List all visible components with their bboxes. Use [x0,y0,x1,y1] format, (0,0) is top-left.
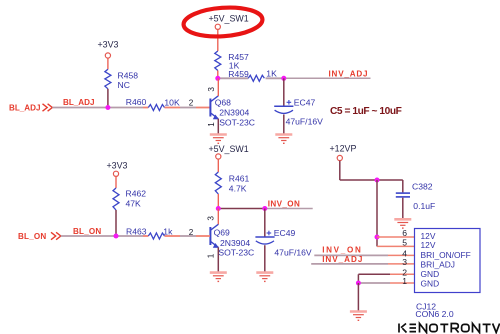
svg-text:BL_ADJ: BL_ADJ [9,104,40,113]
svg-text:Q68: Q68 [215,98,231,108]
svg-text:47K: 47K [126,199,142,209]
svg-text:EC49: EC49 [274,228,296,238]
svg-text:SOT-23C: SOT-23C [219,117,255,127]
svg-text:BRI_ADJ: BRI_ADJ [421,260,455,270]
svg-text:EC47: EC47 [294,98,316,108]
svg-text:2: 2 [189,228,194,237]
svg-text:BL_ON: BL_ON [18,232,46,241]
svg-text:+12VP: +12VP [330,143,357,153]
svg-text:BRI_ON/OFF: BRI_ON/OFF [421,250,471,260]
svg-text:3: 3 [207,216,216,221]
svg-text:INV_ADJ: INV_ADJ [322,255,363,264]
svg-text:1: 1 [207,253,216,258]
svg-text:+3V3: +3V3 [98,40,119,50]
svg-text:R458: R458 [118,71,139,81]
svg-text:Q69: Q69 [214,228,230,238]
svg-text:47uF/16V: 47uF/16V [286,116,324,126]
svg-text:12V: 12V [421,240,436,250]
svg-text:6: 6 [402,228,407,238]
svg-text:10K: 10K [164,97,180,107]
svg-text:INV_ADJ: INV_ADJ [329,69,369,78]
svg-text:1k: 1k [163,227,173,237]
svg-text:R460: R460 [126,97,147,107]
svg-text:47uF/16V: 47uF/16V [274,248,312,258]
svg-text:BL_ADJ: BL_ADJ [63,98,94,107]
svg-text:2N3904: 2N3904 [219,108,249,118]
svg-text:R463: R463 [126,227,147,237]
svg-text:1K: 1K [266,69,277,79]
svg-text:+5V_SW1: +5V_SW1 [209,14,249,24]
svg-text:4.7K: 4.7K [229,184,247,194]
svg-text:C382: C382 [412,182,433,192]
svg-text:+5V_SW1: +5V_SW1 [209,144,249,154]
svg-text:CON6 2.0: CON6 2.0 [415,309,453,319]
svg-text:R459: R459 [228,69,249,79]
svg-text:SOT-23C: SOT-23C [218,247,254,257]
svg-text:C5 = 1uF ~ 10uF: C5 = 1uF ~ 10uF [330,106,402,117]
svg-text:1: 1 [207,122,216,127]
svg-text:R461: R461 [229,174,250,184]
svg-text:3: 3 [207,87,216,92]
svg-text:5: 5 [402,237,407,247]
svg-text:0.1uF: 0.1uF [413,201,435,211]
svg-text:2: 2 [189,99,194,108]
svg-text:1: 1 [402,276,407,286]
svg-text:R462: R462 [126,189,147,199]
svg-text:INV_ON: INV_ON [268,200,301,209]
svg-text:3: 3 [402,257,407,267]
svg-text:NC: NC [118,80,130,90]
svg-text:+3V3: +3V3 [107,161,128,171]
svg-text:INV_ON: INV_ON [322,245,362,254]
svg-text:GND: GND [421,278,440,288]
svg-text:BL_ON: BL_ON [73,227,101,236]
